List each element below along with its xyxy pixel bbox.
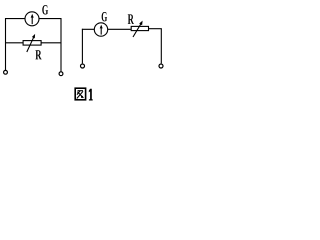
galvanometer G (left circuit) [25, 12, 39, 26]
terminal bottom-left of right circuit [81, 64, 85, 68]
rheostat R (left circuit) [23, 34, 41, 52]
terminal bottom-right of right circuit [159, 64, 163, 68]
wire top of right circuit [82, 28, 132, 30]
wire right vertical of right circuit [160, 29, 162, 64]
wire top of left loop [5, 18, 61, 20]
wire left vertical of left loop [5, 18, 7, 70]
svg-text:G: G [42, 3, 48, 18]
wire middle branch of left loop [6, 42, 62, 44]
label 图 (figure caption character) [75, 88, 85, 100]
terminal bottom-right of left circuit [59, 72, 63, 76]
wire from rheostat to right corner [148, 28, 162, 30]
galvanometer G (right circuit) [94, 23, 107, 36]
label 1 (figure caption number) [89, 89, 93, 101]
svg-text:R: R [35, 48, 42, 63]
wire right vertical of left loop [60, 18, 62, 72]
rheostat R (right circuit) [131, 21, 148, 37]
wire left vertical of right circuit [81, 29, 83, 64]
svg-text:R: R [128, 12, 135, 28]
terminal bottom-left of left circuit [4, 70, 8, 74]
svg-text:G: G [101, 10, 107, 25]
